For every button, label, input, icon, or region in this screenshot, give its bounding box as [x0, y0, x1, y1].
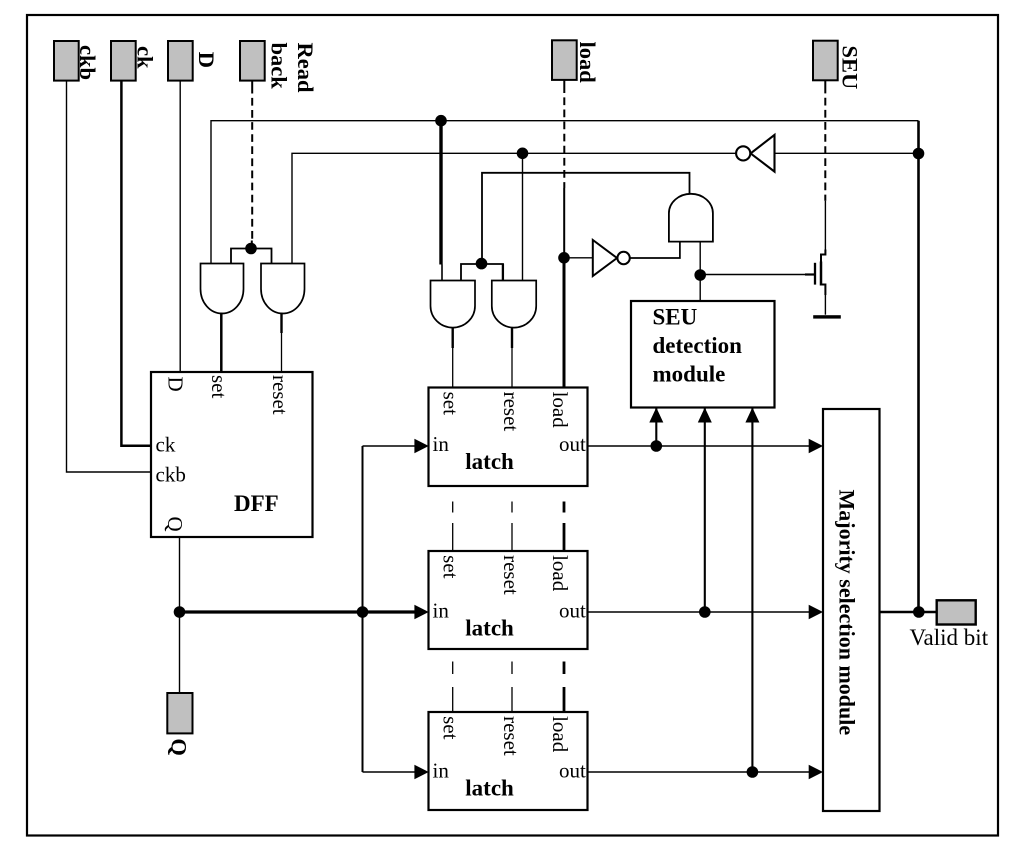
AND gate A5 [669, 194, 713, 242]
wire Q1 source to ground [821, 285, 825, 296]
arrow up sense 2 [698, 408, 712, 423]
wire set dash latch1-latch2 [452, 502, 454, 552]
latch L3 [429, 712, 588, 810]
wire latch3 out [588, 771, 811, 773]
transistor Q1 [814, 263, 816, 285]
junction load tap [558, 252, 570, 264]
wire load dash latch2-latch3 [563, 662, 566, 713]
wire branch vertical [362, 446, 364, 772]
pad load [552, 40, 577, 80]
svg-text:load: load [548, 555, 572, 592]
wire SEU module sense 2 [704, 409, 706, 613]
AND gate A2 [261, 264, 305, 314]
pad Read back [240, 41, 265, 81]
svg-text:set: set [439, 555, 463, 578]
pad SEU [813, 41, 838, 81]
wire bracket to gates A3 A4 [461, 264, 503, 281]
wire Read back (dashed) [251, 81, 253, 94]
svg-text:reset: reset [499, 716, 523, 756]
arrow latch2 out into majority [809, 605, 823, 619]
svg-text:set: set [439, 392, 463, 415]
pad ckb [54, 41, 79, 81]
junction latch3 out tap [747, 766, 759, 778]
wire load dash latch1-latch2 [563, 502, 566, 552]
svg-text:latch: latch [465, 449, 514, 474]
pad Valid bit [937, 600, 976, 624]
wire net1 to gate A3 input [439, 121, 442, 265]
AND gate A3 [431, 281, 476, 328]
svg-text:Q: Q [163, 517, 187, 532]
svg-text:D: D [194, 52, 219, 68]
junction branch [357, 606, 369, 618]
wire load to latch1 [563, 258, 566, 388]
SEU detection module U4 [631, 301, 775, 408]
junction latch2 out tap [699, 606, 711, 618]
arrow into latch3 in [414, 765, 428, 779]
DFF U3 [151, 372, 313, 537]
svg-text:load: load [575, 42, 600, 84]
wire U2 input from load [564, 257, 593, 259]
svg-text:SEU: SEU [838, 46, 863, 90]
wire reset dash latch1-latch2 [511, 502, 513, 552]
AND gate A4 [492, 281, 536, 328]
wire net2 U1 output [292, 153, 737, 263]
junction Q node [174, 606, 186, 618]
Majority selection module U5 [823, 409, 880, 811]
wire latch2 out [588, 611, 811, 613]
wire latch1 out [588, 445, 811, 447]
pad Q [167, 693, 192, 733]
latch L2 [429, 551, 588, 649]
wire A2 output to DFF reset [280, 313, 282, 333]
junction inverter U1 input tap [913, 148, 925, 160]
wire U2 output to A5 [631, 242, 680, 258]
svg-text:in: in [433, 432, 450, 456]
svg-text:in: in [433, 759, 450, 783]
svg-text:out: out [559, 599, 586, 623]
wire Q output [179, 537, 181, 693]
wire load (dashed) [563, 80, 565, 93]
pad D [168, 41, 193, 81]
arrow into latch1 in [414, 439, 428, 453]
svg-text:module: module [653, 362, 726, 387]
arrow up sense 3 [745, 408, 759, 423]
junction latch1 out tap [651, 440, 663, 452]
wire reset dash latch2-latch3 [511, 662, 513, 713]
latch L1 [429, 388, 588, 487]
wire ckb [67, 81, 152, 472]
svg-text:load: load [548, 392, 572, 429]
wire SEU module sense 1 [655, 409, 657, 447]
wire net1 right drop to valid node [917, 121, 920, 612]
svg-text:SEU: SEU [653, 305, 698, 330]
wire A4 output to latch1 reset [511, 327, 513, 348]
wire set dash latch2-latch3 [452, 662, 454, 713]
junction node seu [694, 269, 706, 281]
svg-text:back: back [266, 43, 291, 90]
arrow latch1 out into majority [809, 439, 823, 453]
svg-text:latch: latch [465, 616, 514, 641]
svg-text:ckb: ckb [75, 45, 100, 80]
arrow into latch2 in [414, 605, 428, 619]
inverter U1 [751, 135, 775, 172]
wire A1 output to DFF set [220, 313, 223, 372]
junction net1 to gate A3 [435, 115, 447, 127]
svg-text:out: out [559, 759, 586, 783]
wire net2 to gate A4 input [522, 153, 524, 280]
wire SEU to transistor drain [824, 201, 826, 251]
wire U1 input [775, 152, 919, 154]
svg-text:ckb: ckb [156, 463, 186, 487]
junction bracket CD [476, 258, 488, 270]
svg-text:load: load [548, 716, 572, 753]
svg-text:reset: reset [499, 392, 523, 432]
wire node to transistor Q1 gate [700, 274, 814, 276]
svg-text:reset: reset [268, 375, 292, 415]
svg-text:ck: ck [133, 46, 158, 69]
ground [813, 315, 841, 318]
svg-text:detection: detection [653, 333, 743, 358]
wire branch to latch3 in [363, 771, 417, 773]
svg-text:reset: reset [499, 555, 523, 595]
AND gate A1 [201, 264, 244, 314]
wire net3 gate A5 output to set/reset bracket [482, 173, 690, 264]
wire Q node to branch [180, 610, 417, 613]
svg-text:Read: Read [293, 43, 318, 93]
svg-text:latch: latch [465, 776, 514, 801]
inverter U2 [593, 240, 617, 276]
wire ck [121, 81, 151, 446]
junction valid node [913, 606, 925, 618]
junction readback bracket [245, 243, 257, 255]
wire readback bracket to gates A1 A2 [231, 249, 272, 264]
svg-text:D: D [164, 377, 188, 392]
wire SEU module sense 3 [751, 409, 753, 773]
svg-text:DFF: DFF [234, 491, 279, 516]
pad ck [111, 41, 136, 81]
junction net2 to gate A4 [517, 148, 529, 160]
svg-text:out: out [559, 432, 586, 456]
wire D [179, 81, 181, 372]
arrow up sense 1 [649, 408, 663, 423]
wire branch to latch1 in [363, 445, 417, 447]
arrow latch3 out into majority [809, 765, 823, 779]
svg-text:Valid bit: Valid bit [910, 625, 989, 650]
wire majority output [880, 611, 937, 614]
wire A3 output to latch1 set [452, 327, 454, 348]
wire net1 feedback top [211, 121, 919, 264]
wire A5 input node to SEU module [699, 242, 701, 302]
svg-text:in: in [433, 599, 450, 623]
svg-text:set: set [439, 716, 463, 739]
svg-text:Majority selection module: Majority selection module [835, 490, 860, 736]
svg-text:Q: Q [167, 738, 192, 756]
svg-text:ck: ck [156, 433, 176, 457]
wire SEU (dashed) [824, 80, 826, 93]
svg-text:set: set [207, 375, 231, 398]
